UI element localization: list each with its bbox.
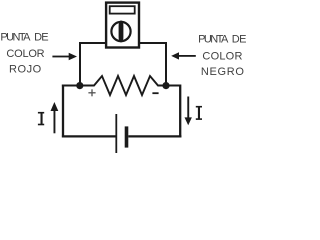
svg-text:DE: DE — [34, 32, 49, 44]
resistor R1 with top rail — [62, 76, 180, 95]
current label I right — [196, 106, 202, 120]
polarity minus label — [152, 92, 158, 94]
svg-text:PUNTA: PUNTA — [198, 34, 229, 46]
wire multimeter left lead horizontal — [80, 42, 107, 44]
wire left loop vertical — [62, 85, 64, 138]
multimeter M1 knob pointer — [119, 20, 124, 42]
node B junction dot right — [162, 82, 169, 89]
svg-text:DE: DE — [232, 34, 247, 46]
svg-text:PUNTA: PUNTA — [0, 32, 31, 44]
battery B1 positive plate — [115, 114, 117, 153]
svg-text:COLOR: COLOR — [6, 48, 44, 60]
wire right loop vertical — [179, 85, 181, 138]
multimeter M1 display — [110, 6, 135, 13]
wire bottom rail right — [128, 135, 181, 137]
wire bottom rail left — [62, 135, 116, 137]
svg-text:ROJO: ROJO — [9, 63, 42, 75]
current arrow down (right) — [185, 97, 192, 126]
current arrow up (left) — [51, 102, 59, 133]
wire multimeter right lead horizontal — [139, 42, 167, 44]
label PUNTA DE COLOR ROJO — [0, 32, 48, 76]
multimeter M1 dial knob — [111, 22, 130, 41]
polarity plus label — [88, 89, 95, 96]
wire multimeter left lead vertical — [79, 42, 81, 86]
current label I left — [38, 112, 44, 125]
svg-text:COLOR: COLOR — [202, 51, 242, 63]
arrow to red probe — [52, 53, 77, 61]
wire multimeter right lead vertical — [165, 42, 167, 86]
node A junction dot left — [76, 82, 83, 89]
battery B1 negative plate — [125, 126, 129, 147]
arrow to black probe — [171, 52, 196, 59]
svg-text:NEGRO: NEGRO — [201, 66, 244, 78]
label PUNTA DE COLOR NEGRO — [198, 34, 246, 79]
multimeter M1 body — [106, 3, 139, 48]
